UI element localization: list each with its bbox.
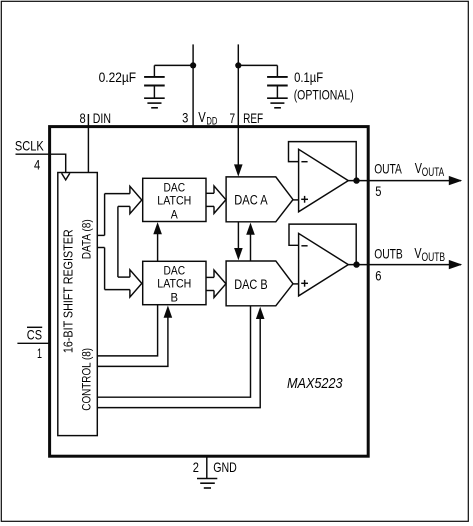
pin 4 SCLK label bbox=[15, 138, 44, 173]
ground symbol at pin 2 bbox=[197, 479, 217, 489]
svg-text:DIN: DIN bbox=[93, 110, 111, 126]
wire data bus to latch A bbox=[105, 193, 130, 195]
svg-text:REF: REF bbox=[243, 110, 263, 126]
arrowhead up into latch A bbox=[153, 222, 162, 234]
op-amp U2 (A) bbox=[299, 149, 349, 212]
wire control line 1 bbox=[97, 305, 157, 356]
wire REF to C2 bbox=[238, 64, 277, 66]
op-amp U3 (B) bbox=[299, 233, 349, 296]
bus arrowhead into DAC latch A bbox=[130, 186, 142, 213]
arrowhead up into latch B bbox=[164, 306, 173, 318]
arrowhead up into DAC B bbox=[256, 307, 265, 319]
svg-text:DAC B: DAC B bbox=[234, 277, 267, 292]
svg-text:DAC A: DAC A bbox=[234, 193, 267, 208]
wire REF chain DAC A to DAC B bbox=[237, 222, 239, 249]
pin 3 VDD label bbox=[182, 110, 217, 128]
capacitor C2 0.1uF bbox=[267, 65, 288, 98]
svg-text:B: B bbox=[171, 293, 179, 305]
capacitor C1 0.22uF bbox=[144, 65, 165, 98]
arrowhead down into DAC B bbox=[234, 248, 243, 260]
svg-text:6: 6 bbox=[375, 267, 381, 283]
svg-text:5: 5 bbox=[375, 183, 381, 199]
node REF junction bbox=[235, 62, 241, 68]
arrowhead OUTB bbox=[449, 260, 462, 269]
wire data bus vertical outer down bbox=[104, 248, 106, 290]
DAC B bbox=[226, 261, 293, 306]
svg-text:LATCH: LATCH bbox=[157, 279, 191, 291]
svg-text:2: 2 bbox=[193, 459, 199, 475]
pin 1 CS label bbox=[27, 327, 42, 361]
pin 8 DIN label bbox=[80, 110, 112, 126]
IC boundary box MAX5223 bbox=[50, 127, 369, 457]
svg-text:3: 3 bbox=[182, 110, 188, 126]
net label VOUTA bbox=[415, 161, 445, 179]
svg-text:MAX5223: MAX5223 bbox=[287, 375, 343, 392]
16-bit shift register U1 bbox=[58, 173, 98, 436]
svg-text:LATCH: LATCH bbox=[157, 196, 191, 208]
svg-text:DAC: DAC bbox=[164, 182, 186, 194]
svg-text:OUTB: OUTB bbox=[422, 252, 446, 264]
wire CS bbox=[17, 342, 49, 344]
svg-text:CONTROL (8): CONTROL (8) bbox=[79, 348, 93, 411]
wire control line 4 bbox=[97, 319, 260, 408]
svg-text:DAC: DAC bbox=[164, 265, 186, 277]
clock chevron at shift register bbox=[62, 173, 70, 180]
svg-text:8: 8 bbox=[80, 110, 86, 126]
svg-text:0.1µF: 0.1µF bbox=[294, 69, 323, 85]
wire DAC A to op-amp A + input bbox=[293, 199, 299, 201]
svg-text:16-BIT SHIFT REGISTER: 16-BIT SHIFT REGISTER bbox=[62, 229, 76, 353]
wire bus latch B to DAC B bbox=[206, 276, 214, 278]
wire data bus vertical inner bbox=[117, 206, 119, 277]
svg-text:DATA (8): DATA (8) bbox=[79, 219, 93, 259]
bus arrowhead into DAC B bbox=[214, 270, 226, 297]
svg-text:7: 7 bbox=[230, 110, 236, 126]
svg-text:OUTB: OUTB bbox=[374, 245, 403, 261]
wire data bus vertical outer up bbox=[104, 194, 106, 236]
svg-text:CS: CS bbox=[27, 327, 42, 343]
wire control line 3 bbox=[97, 306, 250, 397]
overline on CS bbox=[27, 326, 42, 328]
node VDD junction bbox=[190, 62, 196, 68]
bus arrowhead into DAC A bbox=[214, 186, 226, 213]
svg-text:4: 4 bbox=[34, 156, 40, 172]
pin 7 REF label bbox=[230, 110, 264, 126]
wire chain latch B top to latch A bottom bbox=[157, 234, 159, 261]
svg-text:1: 1 bbox=[37, 345, 42, 361]
svg-text:(OPTIONAL): (OPTIONAL) bbox=[294, 86, 354, 102]
wire VDD to C1 bbox=[154, 64, 193, 66]
ground symbol at C1 bbox=[144, 98, 165, 108]
svg-text:0.22µF: 0.22µF bbox=[99, 69, 137, 85]
arrowhead REF into DAC A bbox=[234, 164, 243, 176]
wire feedback loop op-amp B bbox=[289, 224, 356, 265]
wire DAC B to op-amp B + input bbox=[293, 283, 299, 285]
wire OUTB output bbox=[348, 264, 461, 266]
arrowhead up into DAC A bbox=[246, 223, 255, 235]
svg-text:SCLK: SCLK bbox=[15, 138, 44, 154]
svg-text:OUTA: OUTA bbox=[374, 160, 402, 176]
wire SCLK bbox=[16, 154, 66, 172]
wire chain DAC B top to DAC A bottom bbox=[250, 235, 252, 262]
svg-text:GND: GND bbox=[213, 459, 237, 475]
wire GND pin bbox=[206, 456, 208, 478]
wire control line 2 bbox=[97, 318, 168, 367]
svg-text:OUTA: OUTA bbox=[422, 167, 445, 179]
wire data bus stubs from shift register bbox=[97, 234, 104, 236]
wire REF vertical bbox=[237, 44, 239, 170]
arrowhead OUTA bbox=[449, 176, 462, 185]
svg-text:A: A bbox=[171, 210, 178, 222]
svg-text:DD: DD bbox=[206, 116, 217, 128]
DAC A bbox=[226, 177, 293, 222]
wire OUTA output bbox=[348, 180, 461, 182]
node output A junction bbox=[353, 177, 359, 183]
wire bus latch A to DAC A bbox=[206, 192, 214, 194]
ground symbol at C2 bbox=[267, 98, 288, 108]
wire DIN bbox=[87, 114, 89, 173]
node output B junction bbox=[353, 261, 359, 267]
value label 0.1uF (OPTIONAL) bbox=[294, 69, 354, 103]
DAC latch B bbox=[143, 261, 206, 304]
pin 2 GND label bbox=[193, 459, 237, 475]
wire feedback loop op-amp A bbox=[289, 142, 357, 181]
wire data bus to latch B bbox=[118, 276, 130, 278]
DAC latch A bbox=[143, 178, 206, 221]
svg-text:V: V bbox=[198, 110, 206, 126]
pin 6 OUTB label bbox=[374, 245, 403, 283]
wire VDD vertical bbox=[192, 44, 194, 126]
bus arrowhead into DAC latch B bbox=[130, 270, 142, 297]
net label VOUTB bbox=[414, 246, 445, 264]
pin 5 OUTA label bbox=[374, 160, 402, 199]
